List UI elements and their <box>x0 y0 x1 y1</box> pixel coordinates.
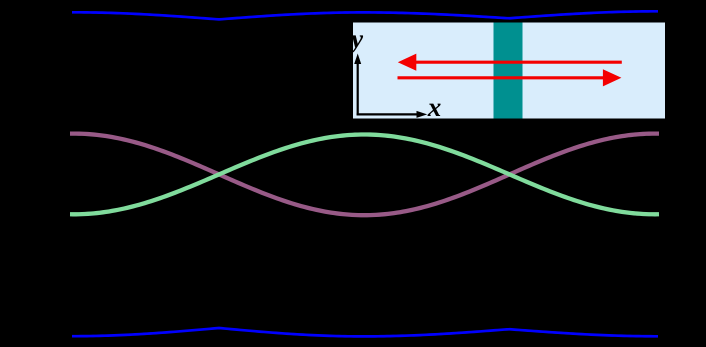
inset label x <box>428 104 441 116</box>
inset x-axis <box>357 113 419 115</box>
red arrow leftward <box>412 61 622 64</box>
wave purple (leftward wave) <box>70 134 659 216</box>
inset box <box>353 23 665 119</box>
inset teal slab <box>494 23 523 119</box>
wave sum bottom (blue) <box>72 328 658 336</box>
red arrow rightward <box>398 76 608 79</box>
inset label y <box>349 35 364 53</box>
inset y-axis <box>357 62 359 115</box>
wave green (rightward wave) <box>70 135 659 215</box>
wave sum top (blue) <box>72 11 658 19</box>
